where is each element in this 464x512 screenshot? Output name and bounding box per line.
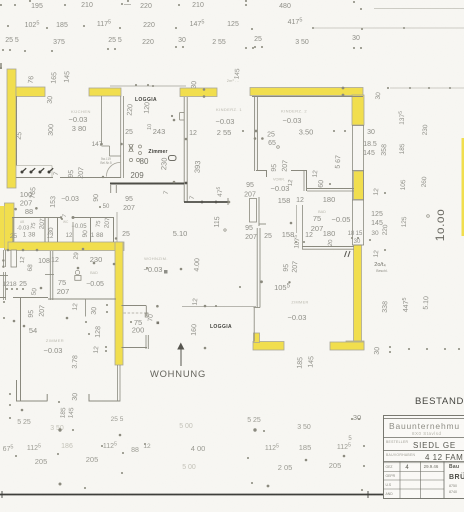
title block divider 2 (384, 450, 464, 452)
yellow wall: top-right outer wall horizontal (250, 88, 363, 96)
title block side dots (363, 445, 365, 447)
door leaf rectangle lower-left (11, 250, 17, 267)
wall: kitchen west wall below arm (16, 96, 18, 166)
title block small grid (399, 462, 401, 499)
zimmer4 dots (260, 280, 263, 283)
wall: kitchen interior partition line (101, 96, 103, 146)
yellow wall: center vertical wall (corridor to living room) (115, 242, 123, 365)
yellow wall: left outer wall lower segment (5, 203, 15, 250)
yellow wall: left wall top arm (16, 87, 45, 97)
living room door top line (122, 305, 147, 307)
wall: hall stub below band (double) (49, 251, 51, 300)
yellow wall: loggia top wall left piece / kitchen arm (89, 88, 121, 96)
living room door dashed swing (124, 312, 146, 314)
wall: center-left vertical below band (85, 299, 87, 317)
yellow wall: right outer wall lower segment (354, 245, 362, 349)
wall: kitchen south wall (16, 177, 53, 179)
loggia2 dots (204, 305, 207, 308)
title block top double line (384, 418, 464, 420)
stray marks top-left edge (29, 0, 31, 2)
junction dots on heavy walls (185, 182, 188, 185)
wall: kinderz2 west wall bottom jog (256, 170, 267, 172)
kitchen closet step (102, 145, 110, 147)
yellow wall: bottom loggia left corner stub (254, 333, 260, 343)
paper grain overlay (0, 0, 1, 1)
wall: small rooms row dividers (12, 217, 14, 242)
title block divider 1 (384, 437, 464, 439)
wall: vorr east wall (306, 170, 308, 191)
wall: zimmer1 south heavy wall (110, 183, 184, 185)
kitchen partition diamonds (100, 143, 103, 146)
wall: west loggia wall thin double (120, 96, 122, 178)
mid right dots (290, 222, 293, 225)
wall: zimmer1 wall stub at x228 (227, 198, 229, 205)
wall: zimmer3 west wall (20, 298, 22, 401)
yellow wall: bottom loggia wall right piece (330, 342, 364, 350)
wall: left lower horizontal (0, 275, 8, 277)
dim row 2 dots (7, 25, 9, 27)
wall: kinderz2 west double wall (254, 97, 256, 171)
bad south wall hash marks (345, 251, 347, 257)
kitchen door swing arc (106, 162, 120, 176)
wall: bottom loggia dimension line (182, 306, 256, 308)
wall: vorr north wall (291, 170, 307, 172)
living room door bottom jamb (145, 335, 147, 349)
wall: zimmer1 east double wall (183, 97, 185, 202)
wall: zimmer1 east wall top jog (180, 112, 184, 114)
door dim small square and dot (157, 322, 160, 325)
wall: bad south wall (302, 246, 354, 248)
yellow wall: loggia top wall center piece (180, 88, 217, 97)
row junction dots (14, 208, 17, 211)
dim row 3 dots (2, 49, 4, 51)
yellow wall: mid horizontal corridor band (8, 242, 124, 251)
bottom right dots row (389, 346, 391, 348)
yellow wall: right outer wall upper segment (352, 95, 364, 125)
yellow wall: left outer wall vertical (7, 69, 16, 188)
wall: east wall window sills (352, 125, 364, 127)
wall: center wall below yellow (117, 365, 119, 402)
wall: zimmer3 north wall (0, 297, 6, 299)
yellow wall: right outer wall mid segment (354, 171, 364, 200)
wohnung arrow (180, 348, 182, 366)
bottom left dots (9, 393, 11, 395)
wall: east outer wall edges (352, 125, 354, 245)
yellow wall: bottom loggia wall left piece (253, 342, 284, 351)
dark blob left edge (0, 63, 2, 69)
page bottom border line (0, 494, 383, 496)
zimmer1 fixtures circles (129, 144, 132, 147)
wall: hall north heavy wall (184, 201, 228, 203)
wall: kinderz2 south edge line under yellow (252, 96, 363, 98)
loggia dim dots (135, 84, 137, 86)
wc fixture symbol (75, 270, 79, 274)
wall: small rooms row north wall with door gap (12, 217, 60, 219)
wall: bad north wall (307, 188, 354, 190)
kinderz2 dim dots (242, 130, 244, 132)
dimension line over loggia (110, 85, 186, 87)
wall: far-left lower wall (3, 272, 5, 300)
yellow sliver at right paper edge (462, 138, 464, 236)
wall: zimmer4 west wall (258, 197, 260, 226)
kitchen counter hinge marks (21, 171, 24, 174)
lower dots cluster (6, 288, 8, 290)
yellow wall: right outer wall bottom foot (346, 341, 364, 350)
dim row 1 dots and lines (14, 4, 16, 6)
title block outer frame (384, 416, 464, 499)
wall: zimmer3 south stepped wall (16, 380, 18, 402)
top right dim dots row (387, 87, 389, 89)
wall: bad west wall stub (302, 205, 304, 249)
yellow wall: far-left edge pieces (0, 206, 5, 248)
zimmer3 misc dots (3, 301, 5, 303)
wall: zimmer4 west wall foot (259, 223, 266, 225)
wall: center wall upper thin line (116, 212, 118, 242)
kitchen counter outline (16, 165, 52, 167)
title block divider 3 (384, 461, 464, 463)
